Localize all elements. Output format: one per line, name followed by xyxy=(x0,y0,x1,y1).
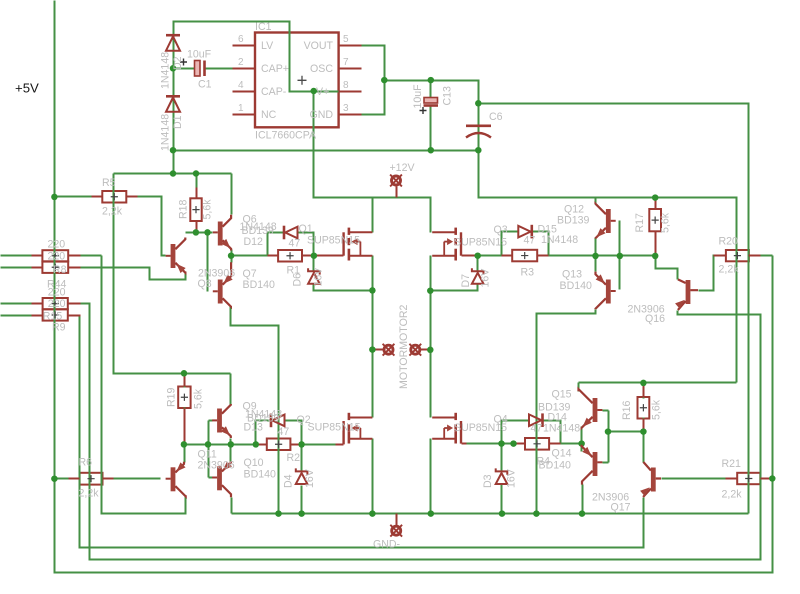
wire D15 loop left xyxy=(502,232,519,256)
svg-text:1: 1 xyxy=(238,103,244,114)
junction Q3 gate/D7 xyxy=(474,252,481,259)
resistor R15 body xyxy=(43,298,68,309)
resistor R5 left lead xyxy=(92,196,103,198)
transistor Q14 BD140 xyxy=(582,445,603,485)
wire node row xyxy=(596,255,656,257)
svg-text:OSC: OSC xyxy=(310,63,333,75)
wire Q12/Q13 base link xyxy=(619,221,621,290)
wire Q4 gate row xyxy=(467,443,514,445)
svg-text:Q17: Q17 xyxy=(611,502,631,514)
junction bases/gate row xyxy=(205,441,212,448)
transistor Q11 2N3906 xyxy=(166,462,186,497)
transistor Q7 BD140 xyxy=(213,262,233,306)
svg-text:BD140: BD140 xyxy=(539,460,571,472)
wire D7 bottom link xyxy=(431,285,478,291)
svg-text:5,6k: 5,6k xyxy=(660,212,672,233)
wire Q12 emitter lead xyxy=(595,239,597,256)
resistor R4 right lead xyxy=(550,443,561,445)
transistor Q6 BD139 xyxy=(213,215,233,251)
svg-text:47: 47 xyxy=(289,238,301,250)
svg-text:R5: R5 xyxy=(102,177,116,189)
svg-text:+12V: +12V xyxy=(390,162,416,174)
wire Q12 collector lead xyxy=(595,198,597,205)
junction R16 bottom/Q17c xyxy=(640,428,647,435)
wire gate row lower-left xyxy=(184,444,256,446)
resistor R2 left lead xyxy=(256,444,267,446)
wire +5V to R5 xyxy=(55,196,92,198)
svg-text:Q13: Q13 xyxy=(562,269,582,281)
resistor R21 body xyxy=(737,473,760,484)
wire R16 bottom lead xyxy=(643,418,645,432)
junction motor left xyxy=(369,346,376,353)
wire D14 loop right xyxy=(544,421,561,444)
svg-text:D12: D12 xyxy=(244,236,264,248)
wire top rail xyxy=(174,150,479,152)
svg-text:2,2k: 2,2k xyxy=(722,489,743,501)
resistor R3 right lead xyxy=(538,255,549,257)
svg-text:ICL7660CPA: ICL7660CPA xyxy=(255,130,317,142)
junction busA/D column xyxy=(170,170,177,177)
resistor R15 origin xyxy=(52,300,59,307)
zener diode D4 xyxy=(296,468,308,484)
pin gate Q4 xyxy=(462,443,467,445)
wire C13 top lead xyxy=(430,81,432,98)
wire D15 loop right xyxy=(532,232,549,256)
resistor R18 origin xyxy=(192,206,199,213)
junction GND/D4 xyxy=(298,510,305,517)
junction GND/D3 xyxy=(499,510,506,517)
wire Q14 base stub xyxy=(603,462,609,464)
wire emitter node stub up xyxy=(231,250,233,263)
resistor R19 body xyxy=(178,387,190,409)
transistor Q13 BD140 xyxy=(596,272,616,310)
svg-text:6: 6 xyxy=(238,34,244,45)
resistor R20 origin xyxy=(734,252,741,259)
resistor R9 origin xyxy=(52,311,59,318)
svg-text:R21: R21 xyxy=(722,458,742,470)
resistor R44 body xyxy=(42,262,68,273)
resistor R4 body xyxy=(525,438,549,450)
zener diode D7 xyxy=(472,268,484,284)
wire R17 bottom lead xyxy=(655,232,657,256)
resistor R17 origin xyxy=(652,217,659,224)
svg-text:4: 4 xyxy=(238,80,244,91)
svg-text:BD140: BD140 xyxy=(243,279,275,291)
junction GND/Q4s xyxy=(428,510,435,517)
svg-text:Q1: Q1 xyxy=(299,223,313,235)
capacitor C6 xyxy=(466,126,491,138)
resistor R1 body xyxy=(278,250,302,262)
wire Q15/Q14 emitter link xyxy=(581,427,583,452)
wire C13 bottom lead xyxy=(430,106,432,151)
transistor Q4 SUP85N15 xyxy=(432,413,461,444)
transistor Q16 2N3906 xyxy=(675,279,698,310)
svg-text:NC: NC xyxy=(261,109,277,121)
wire Q3 gate row xyxy=(478,255,502,257)
resistor R18 body xyxy=(190,198,201,221)
wire Q9/Q10 base link xyxy=(208,421,210,478)
wire VOUT to GND pin loop xyxy=(362,46,385,115)
pin 7 IC1 right stub xyxy=(339,68,362,70)
wire node to Q16 collector xyxy=(656,256,678,280)
resistor R6 origin xyxy=(87,475,94,482)
wire C6 bottom lead xyxy=(478,136,480,151)
svg-text:C6: C6 xyxy=(489,111,503,123)
wire R16 top lead xyxy=(643,383,645,399)
junction busA/R18 xyxy=(193,170,200,177)
resistor R6 right lead xyxy=(103,478,114,480)
svg-text:Q15: Q15 xyxy=(552,389,572,401)
resistor R15 left lead xyxy=(32,303,43,305)
junction rail/C13 xyxy=(428,147,435,154)
wire D6 top lead xyxy=(313,256,315,271)
svg-text:SUP85N15: SUP85N15 xyxy=(454,237,507,249)
wire R18 top lead xyxy=(196,174,198,188)
svg-text:+5V: +5V xyxy=(15,81,39,96)
resistor R18 top lead xyxy=(196,188,198,199)
wire Q11 emitter lead xyxy=(184,445,186,463)
diode D14 xyxy=(529,413,543,427)
wire Q10 base stub xyxy=(209,477,213,479)
wire GND row xyxy=(232,513,749,515)
svg-text:Q6: Q6 xyxy=(243,214,257,226)
svg-text:1N4148: 1N4148 xyxy=(160,114,172,151)
pin 5 IC1 right stub xyxy=(339,45,362,47)
wire Q10 emitter lead xyxy=(230,445,232,462)
svg-text:7: 7 xyxy=(343,57,349,68)
wire R9 to bus1 to Q17e xyxy=(68,316,644,548)
diode D2 xyxy=(166,35,180,51)
resistor R21 right lead xyxy=(761,478,773,480)
wire Q16 base to R20 xyxy=(699,256,726,291)
resistor R16 body xyxy=(638,397,650,419)
motor terminal right xyxy=(409,344,421,356)
resistor R2 origin xyxy=(275,441,282,448)
junction rail/C6 corner xyxy=(475,147,482,154)
svg-text:5,6k: 5,6k xyxy=(651,399,663,420)
svg-text:BD139: BD139 xyxy=(247,413,279,425)
svg-text:3: 3 xyxy=(343,103,349,114)
junction GND/Q14c xyxy=(579,510,586,517)
svg-text:220: 220 xyxy=(48,239,66,251)
wire R19 top lead xyxy=(184,374,186,388)
wire input D xyxy=(1,315,32,317)
pin 3 IC1 right stub xyxy=(339,114,362,116)
svg-text:47: 47 xyxy=(524,235,536,247)
resistor R8 origin xyxy=(52,252,59,259)
wire R8 right xyxy=(81,255,102,257)
svg-text:2,2k: 2,2k xyxy=(719,264,740,276)
svg-text:47: 47 xyxy=(531,423,543,435)
svg-text:220: 220 xyxy=(48,298,66,310)
wire C6 top lead xyxy=(478,104,480,126)
svg-text:2,2k: 2,2k xyxy=(79,488,100,500)
wire Q9 emitter lead xyxy=(230,439,232,445)
resistor R18 bottom lead xyxy=(196,222,198,233)
svg-text:BD139: BD139 xyxy=(557,215,589,227)
wire D column to bus A xyxy=(173,151,175,174)
junction R17 bottom xyxy=(652,253,659,260)
wire D7 top lead xyxy=(477,256,479,271)
wire gate row right part xyxy=(302,444,336,446)
junction emitter link/gate row xyxy=(578,440,585,447)
diode D12 xyxy=(284,226,298,240)
junction R4 left xyxy=(510,440,517,447)
wire R20 right lead xyxy=(761,255,773,257)
resistor R5 body xyxy=(102,191,126,203)
wire D4 branch xyxy=(301,445,303,472)
pin 4 IC1 left stub xyxy=(233,91,256,93)
wire R3 right to Q12/13 xyxy=(549,255,596,257)
junction Q9e/Q10c xyxy=(228,441,235,448)
wire D12 loop right xyxy=(298,233,314,256)
wire Q2 source drop xyxy=(372,439,374,514)
wire D13 loop left xyxy=(256,421,272,445)
svg-text:R3: R3 xyxy=(521,267,535,279)
svg-text:5,6k: 5,6k xyxy=(193,388,205,409)
pin 8 IC1 right stub xyxy=(339,91,362,93)
svg-text:R21: R21 xyxy=(0,0,20,3)
wire Q8 collector row xyxy=(186,232,213,234)
resistor R17 bottom lead xyxy=(655,232,657,256)
junction D13 left xyxy=(253,441,259,448)
junction Q3 source/D7 xyxy=(427,287,434,294)
pin gate Q1 xyxy=(331,255,344,257)
wire Q14 collector xyxy=(582,485,584,514)
wire D14 loop left xyxy=(502,421,530,444)
svg-text:Q10: Q10 xyxy=(244,457,264,469)
wire VOUT branch to C13/C6 xyxy=(385,81,737,383)
junction C1 left node xyxy=(170,65,177,72)
junction V+ branch xyxy=(310,88,317,95)
svg-text:R9: R9 xyxy=(52,322,66,334)
svg-text:R16: R16 xyxy=(621,400,633,420)
junction R1 right / D6 top xyxy=(311,252,318,259)
wire D1-D2 column to IC V+ xyxy=(174,22,362,174)
junction Q6e/Q7e node xyxy=(228,252,235,259)
motor terminal left xyxy=(383,344,395,356)
resistor R1 left lead xyxy=(268,255,279,257)
transistor Q10 BD140 xyxy=(212,461,232,497)
wire motor right stub xyxy=(421,349,431,351)
junction +5V/R6 xyxy=(51,475,58,482)
junction GND/Q13c xyxy=(533,510,540,517)
svg-text:C1: C1 xyxy=(198,79,212,91)
wire C1 right to pin2 xyxy=(206,68,233,70)
svg-text:Q16: Q16 xyxy=(645,313,665,325)
svg-text:D4: D4 xyxy=(283,474,295,488)
junction Q1 source/D6 xyxy=(369,287,376,294)
svg-text:SUP85N15: SUP85N15 xyxy=(308,422,361,434)
wire Q17 collector lead xyxy=(643,432,645,463)
svg-text:220: 220 xyxy=(48,287,66,299)
wire input C xyxy=(1,303,32,305)
svg-text:Q14: Q14 xyxy=(552,448,572,460)
svg-text:IC1: IC1 xyxy=(255,21,272,33)
wire gate row to emitter link xyxy=(561,443,582,445)
wire Q6/Q7 base link xyxy=(207,233,209,292)
pin 2 IC1 left stub xyxy=(233,68,256,70)
svg-text:Q8: Q8 xyxy=(198,278,212,290)
wire R16 rail xyxy=(579,382,737,384)
wire C1 left xyxy=(174,68,195,70)
wire D6 bottom to Q1 source xyxy=(314,285,373,291)
svg-text:2,2k: 2,2k xyxy=(102,206,123,218)
wire motor left stub xyxy=(373,349,384,351)
zener diode D6 xyxy=(308,268,320,284)
wire Q15/Q14 base link xyxy=(608,411,610,463)
wire Q13 collector run xyxy=(537,310,596,514)
resistor R2 right lead xyxy=(291,444,302,446)
resistor R44 origin xyxy=(52,264,59,271)
junction C6 top xyxy=(475,100,482,107)
resistor R44 left lead xyxy=(32,267,43,269)
svg-text:R18: R18 xyxy=(178,199,190,219)
svg-text:R8: R8 xyxy=(53,264,67,276)
resistor R6 left lead xyxy=(69,478,80,480)
wire node to D12 loop xyxy=(232,255,268,257)
svg-text:VOUT: VOUT xyxy=(304,40,334,52)
svg-text:BD139: BD139 xyxy=(538,402,570,414)
transistor Q17 2N3906 xyxy=(640,462,661,497)
svg-text:R2: R2 xyxy=(287,452,301,464)
resistor R9 left lead xyxy=(32,315,43,317)
junction GND/Q2s xyxy=(369,510,376,517)
junction R18 bottom xyxy=(193,229,200,236)
transistor Q9 BD139 xyxy=(212,404,233,438)
wire Q3 source drop xyxy=(430,256,432,418)
wire Q11 collector run xyxy=(102,256,186,514)
resistor R21 origin xyxy=(745,475,752,482)
resistor R15 right lead xyxy=(68,303,81,305)
wire bus A row xyxy=(114,173,232,175)
transistor Q12 BD139 xyxy=(594,204,616,240)
resistor R20 right lead xyxy=(749,255,761,257)
svg-text:R19: R19 xyxy=(166,387,178,407)
wire R19 bottom lead xyxy=(184,408,186,445)
resistor R3 body xyxy=(512,250,537,261)
junction motor right xyxy=(427,347,434,354)
plus mark C13 xyxy=(420,107,427,114)
svg-text:CAP+: CAP+ xyxy=(261,63,289,75)
resistor R2 body xyxy=(267,439,291,451)
junction bases row xyxy=(605,428,612,435)
svg-text:10uF: 10uF xyxy=(412,84,424,109)
pin gate Q2 xyxy=(336,444,344,446)
svg-text:1N4148: 1N4148 xyxy=(543,423,580,435)
svg-text:CAP-: CAP- xyxy=(261,86,287,98)
wire Q15 collector lead xyxy=(578,383,580,392)
svg-text:BD139: BD139 xyxy=(242,225,274,237)
junction D13 right/R2 right xyxy=(298,441,305,448)
wire Q1 drain drop xyxy=(372,198,374,233)
resistor R19 top lead xyxy=(184,374,186,387)
wire Q1 source drop xyxy=(372,256,374,418)
transistor Q2 SUP85N15 xyxy=(344,413,373,445)
svg-text:5,6k: 5,6k xyxy=(202,199,214,220)
junction VOUT/C13 branch xyxy=(381,77,388,84)
wire Q9 base stub xyxy=(209,420,213,422)
diode D1 xyxy=(166,96,180,112)
junction base row/Q7 base branch xyxy=(204,229,211,236)
junction Q12e/Q13e xyxy=(592,253,599,260)
wire R18 bottom lead xyxy=(196,222,198,233)
resistor R3 origin xyxy=(521,252,528,259)
wire Q10 collector xyxy=(231,498,233,514)
svg-text:D7: D7 xyxy=(460,274,472,288)
wire input A xyxy=(1,255,32,257)
resistor R5 origin xyxy=(111,193,118,200)
wire D3 bottom xyxy=(501,485,503,514)
resistor R16 top lead xyxy=(643,383,645,398)
svg-text:V+: V+ xyxy=(316,86,329,98)
svg-text:Q3: Q3 xyxy=(494,224,508,236)
resistor R16 origin xyxy=(640,404,647,411)
wire D3 branch xyxy=(501,444,503,471)
resistor R19 bottom lead xyxy=(184,409,186,445)
svg-text:R17: R17 xyxy=(634,213,646,233)
resistor R17 body xyxy=(649,209,661,231)
junction R19 top xyxy=(181,370,188,377)
wire R5 right to Q8 base xyxy=(138,197,166,256)
resistor R5 right lead xyxy=(127,196,138,198)
junction +5V/R5 xyxy=(51,194,58,201)
wire Q13 emitter lead xyxy=(595,256,597,272)
junction R17 top xyxy=(652,194,659,201)
resistor R19 origin xyxy=(181,394,188,401)
junction C13 top xyxy=(428,77,435,84)
origin IC1 xyxy=(298,76,307,85)
transistor Q15 BD139 xyxy=(579,389,603,429)
transistor Q1 SUP85N15 xyxy=(344,228,373,261)
junction D14 left/D3 xyxy=(498,440,505,447)
transistor Q8 2N3906 xyxy=(166,238,186,274)
svg-text:16V: 16V xyxy=(304,468,316,488)
svg-text:C13: C13 xyxy=(442,86,454,106)
svg-text:8: 8 xyxy=(343,80,349,91)
svg-text:1N4148: 1N4148 xyxy=(541,234,578,246)
pin gate Q3 xyxy=(462,255,478,257)
svg-text:MOTORMOTOR2: MOTORMOTOR2 xyxy=(398,305,410,389)
svg-text:D1: D1 xyxy=(172,115,184,129)
resistor R8 right lead xyxy=(69,255,81,257)
junction R16 top xyxy=(640,380,647,387)
diode D13 xyxy=(271,414,285,428)
junction bus3/R21 right xyxy=(769,475,776,482)
resistor R44 right lead xyxy=(69,267,81,269)
resistor R1 right lead xyxy=(303,255,344,257)
resistor R20 left lead xyxy=(714,255,726,257)
svg-text:Q9: Q9 xyxy=(243,401,257,413)
wire D4 bottom xyxy=(301,486,303,514)
wire R6 left xyxy=(55,478,69,480)
supply +12V flag xyxy=(390,175,402,187)
junction Q12/Q13 bases xyxy=(617,253,624,260)
resistor R9 right lead xyxy=(68,315,81,317)
capacitor C13 xyxy=(424,98,439,106)
svg-text:BD140: BD140 xyxy=(244,469,276,481)
wire R44 to Q8 emitter xyxy=(81,268,186,280)
wire V+ to +12V run xyxy=(314,92,431,233)
svg-text:LV: LV xyxy=(261,40,274,52)
junction GND/Q7c xyxy=(275,510,282,517)
svg-text:16V: 16V xyxy=(313,267,325,287)
svg-text:5: 5 xyxy=(343,34,349,45)
ground GND- flag xyxy=(390,525,402,537)
resistor R8 body xyxy=(42,250,68,261)
resistor R17 top lead xyxy=(655,198,657,210)
plus mark C1 xyxy=(180,59,187,66)
